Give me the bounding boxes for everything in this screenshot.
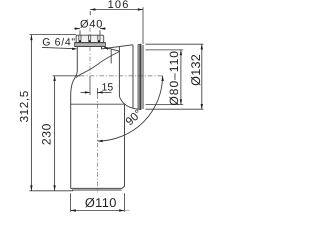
dim 230: top arrow: [53, 76, 55, 81]
dim 90deg: right arrow: [161, 76, 164, 81]
outlet end rim dark band: [139, 45, 141, 109]
neck left edge: [76, 47, 78, 72]
dim 90deg: bottom arrow: [97, 140, 102, 143]
pipe bottom rim inner: [72, 189, 122, 191]
dim 15: right line+arrow: [97, 91, 111, 93]
dim O132: bottom arrow: [201, 104, 203, 109]
dim O110: right arrow: [119, 209, 124, 211]
dim 15: left line+arrow: [81, 91, 91, 93]
dim O132: top arrow: [201, 44, 203, 49]
dim 312,5: dimension line: [30, 35, 32, 191]
svg-text:230: 230: [39, 123, 53, 145]
dim 90deg: arc: [97, 76, 162, 141]
rim bottom edge: [138, 108, 141, 110]
dim O132: bottom extension line: [146, 108, 204, 110]
dim 106: left arrow: [90, 8, 95, 10]
svg-text:Ø80–110: Ø80–110: [167, 50, 181, 106]
socket root line: [110, 49, 112, 63]
dim O132: top extension line: [146, 43, 204, 45]
dim 230: dimension line: [54, 76, 56, 191]
dim O40: left extension line: [79, 30, 81, 35]
body right edge: [118, 47, 120, 97]
dim O40: right line+arrow: [100, 28, 106, 30]
svg-text:312,5: 312,5: [18, 90, 31, 122]
extension line: inlet axis (15 dim left): [89, 76, 91, 96]
dim 106: right arrow: [138, 8, 143, 10]
svg-text:Ø132: Ø132: [189, 54, 203, 86]
nut top body: [76, 35, 104, 42]
label G 6/4": underline leader: [42, 47, 75, 48]
pipe right edge: [122, 103, 125, 188]
svg-text:Ø40: Ø40: [80, 18, 103, 30]
dim 312,5: top arrow: [30, 35, 32, 40]
nut slot 2: [89, 35, 91, 41]
dim O80-110: bottom extension line: [146, 104, 184, 106]
extension line: pipe axis (15 dim right): [96, 88, 98, 95]
dim O40: right extension line: [99, 30, 101, 35]
dim O80-110: bottom arrow: [180, 99, 182, 104]
bend silhouette curve: [76, 52, 119, 78]
dim 312,5: top extension line: [29, 34, 76, 36]
dim O80-110: top extension line: [146, 49, 184, 51]
nut slot 3: [98, 35, 100, 41]
label G 6/4": right side leader: [105, 47, 120, 51]
outlet cone top contour: [102, 45, 134, 49]
dim 312,5: bottom extension line: [29, 190, 73, 192]
dim 230: bottom arrow: [53, 185, 55, 190]
centerline: inlet vertical axis: [89, 28, 91, 76]
centerline: horizontal outlet axis: [80, 75, 163, 77]
dim O110: right overshoot: [124, 209, 130, 211]
rim top edge: [138, 43, 141, 45]
dim 106: dimension line: [90, 9, 143, 11]
dim 106: left extension tick: [89, 11, 91, 15]
centerline: horizontal outlet axis solid part / 230 extension: [53, 75, 81, 77]
nut flange inner line 1: [75, 43, 106, 45]
dim 312,5: bottom arrow: [30, 185, 32, 190]
centerline: main pipe vertical axis: [96, 95, 98, 193]
flange root vertical A: [132, 45, 134, 109]
dim O40: left line+arrow: [74, 28, 80, 30]
nut slot 1: [79, 35, 81, 41]
pipe shoulder joint line: [71, 103, 125, 105]
label G 6/4": right arrow: [104, 47, 109, 50]
neck right edge: [101, 47, 103, 50]
dim O80-110: top arrow: [180, 50, 182, 55]
dim O110: right extension line: [123, 193, 125, 212]
svg-text:106: 106: [108, 0, 130, 11]
body to pipe chamfer / socket bottom contour: [119, 97, 139, 110]
svg-text:G 6/4": G 6/4": [42, 36, 76, 48]
dim O110: left arrow: [71, 209, 76, 211]
nut flange band: [75, 43, 106, 47]
dim O80-110: dimension line: [180, 50, 182, 105]
dim 106: right extension line: [142, 7, 144, 44]
outlet end face line: [142, 45, 144, 109]
dim O110: left extension line: [70, 193, 72, 212]
flange face vertical B: [137, 44, 139, 109]
pipe bottom rim outer: [71, 187, 122, 189]
nut flange inner line 2: [75, 44, 106, 46]
svg-text:15: 15: [102, 81, 114, 93]
body left contour: [71, 71, 78, 188]
label G 6/4": left arrow: [72, 48, 77, 51]
dim O132: dimension line: [201, 44, 203, 109]
dim O110: dimension line: [71, 210, 125, 212]
svg-text:Ø110: Ø110: [85, 195, 117, 210]
